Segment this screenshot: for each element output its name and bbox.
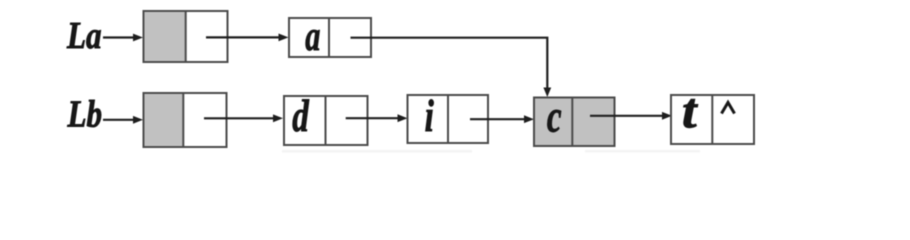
node i box xyxy=(408,95,489,143)
wire Lb to head node xyxy=(103,116,143,124)
faint cropped caption remnants xyxy=(282,150,472,153)
wire node d to node i xyxy=(346,114,408,122)
svg-text:La: La xyxy=(66,14,102,57)
wire Lb head to node d xyxy=(204,114,283,122)
svg-text:c: c xyxy=(547,90,562,142)
svg-text:i: i xyxy=(425,90,434,142)
svg-text:a: a xyxy=(305,12,320,59)
wire La head to node a xyxy=(206,34,289,42)
node a box xyxy=(289,18,371,57)
wire node a to node c (long elbow) xyxy=(351,38,548,89)
wire La to head node xyxy=(103,34,143,42)
wire node c to node t xyxy=(590,112,672,120)
null marker caret in node t xyxy=(722,103,735,114)
svg-text:d: d xyxy=(292,90,309,142)
node c box (both cells shaded) xyxy=(534,98,615,147)
wire node i to node c xyxy=(470,115,534,123)
svg-text:Lb: Lb xyxy=(67,93,103,136)
node t box xyxy=(671,95,754,144)
node d box xyxy=(284,96,368,145)
node Lb head box xyxy=(144,93,227,147)
svg-text:t: t xyxy=(682,84,698,140)
node La head box xyxy=(144,11,228,62)
